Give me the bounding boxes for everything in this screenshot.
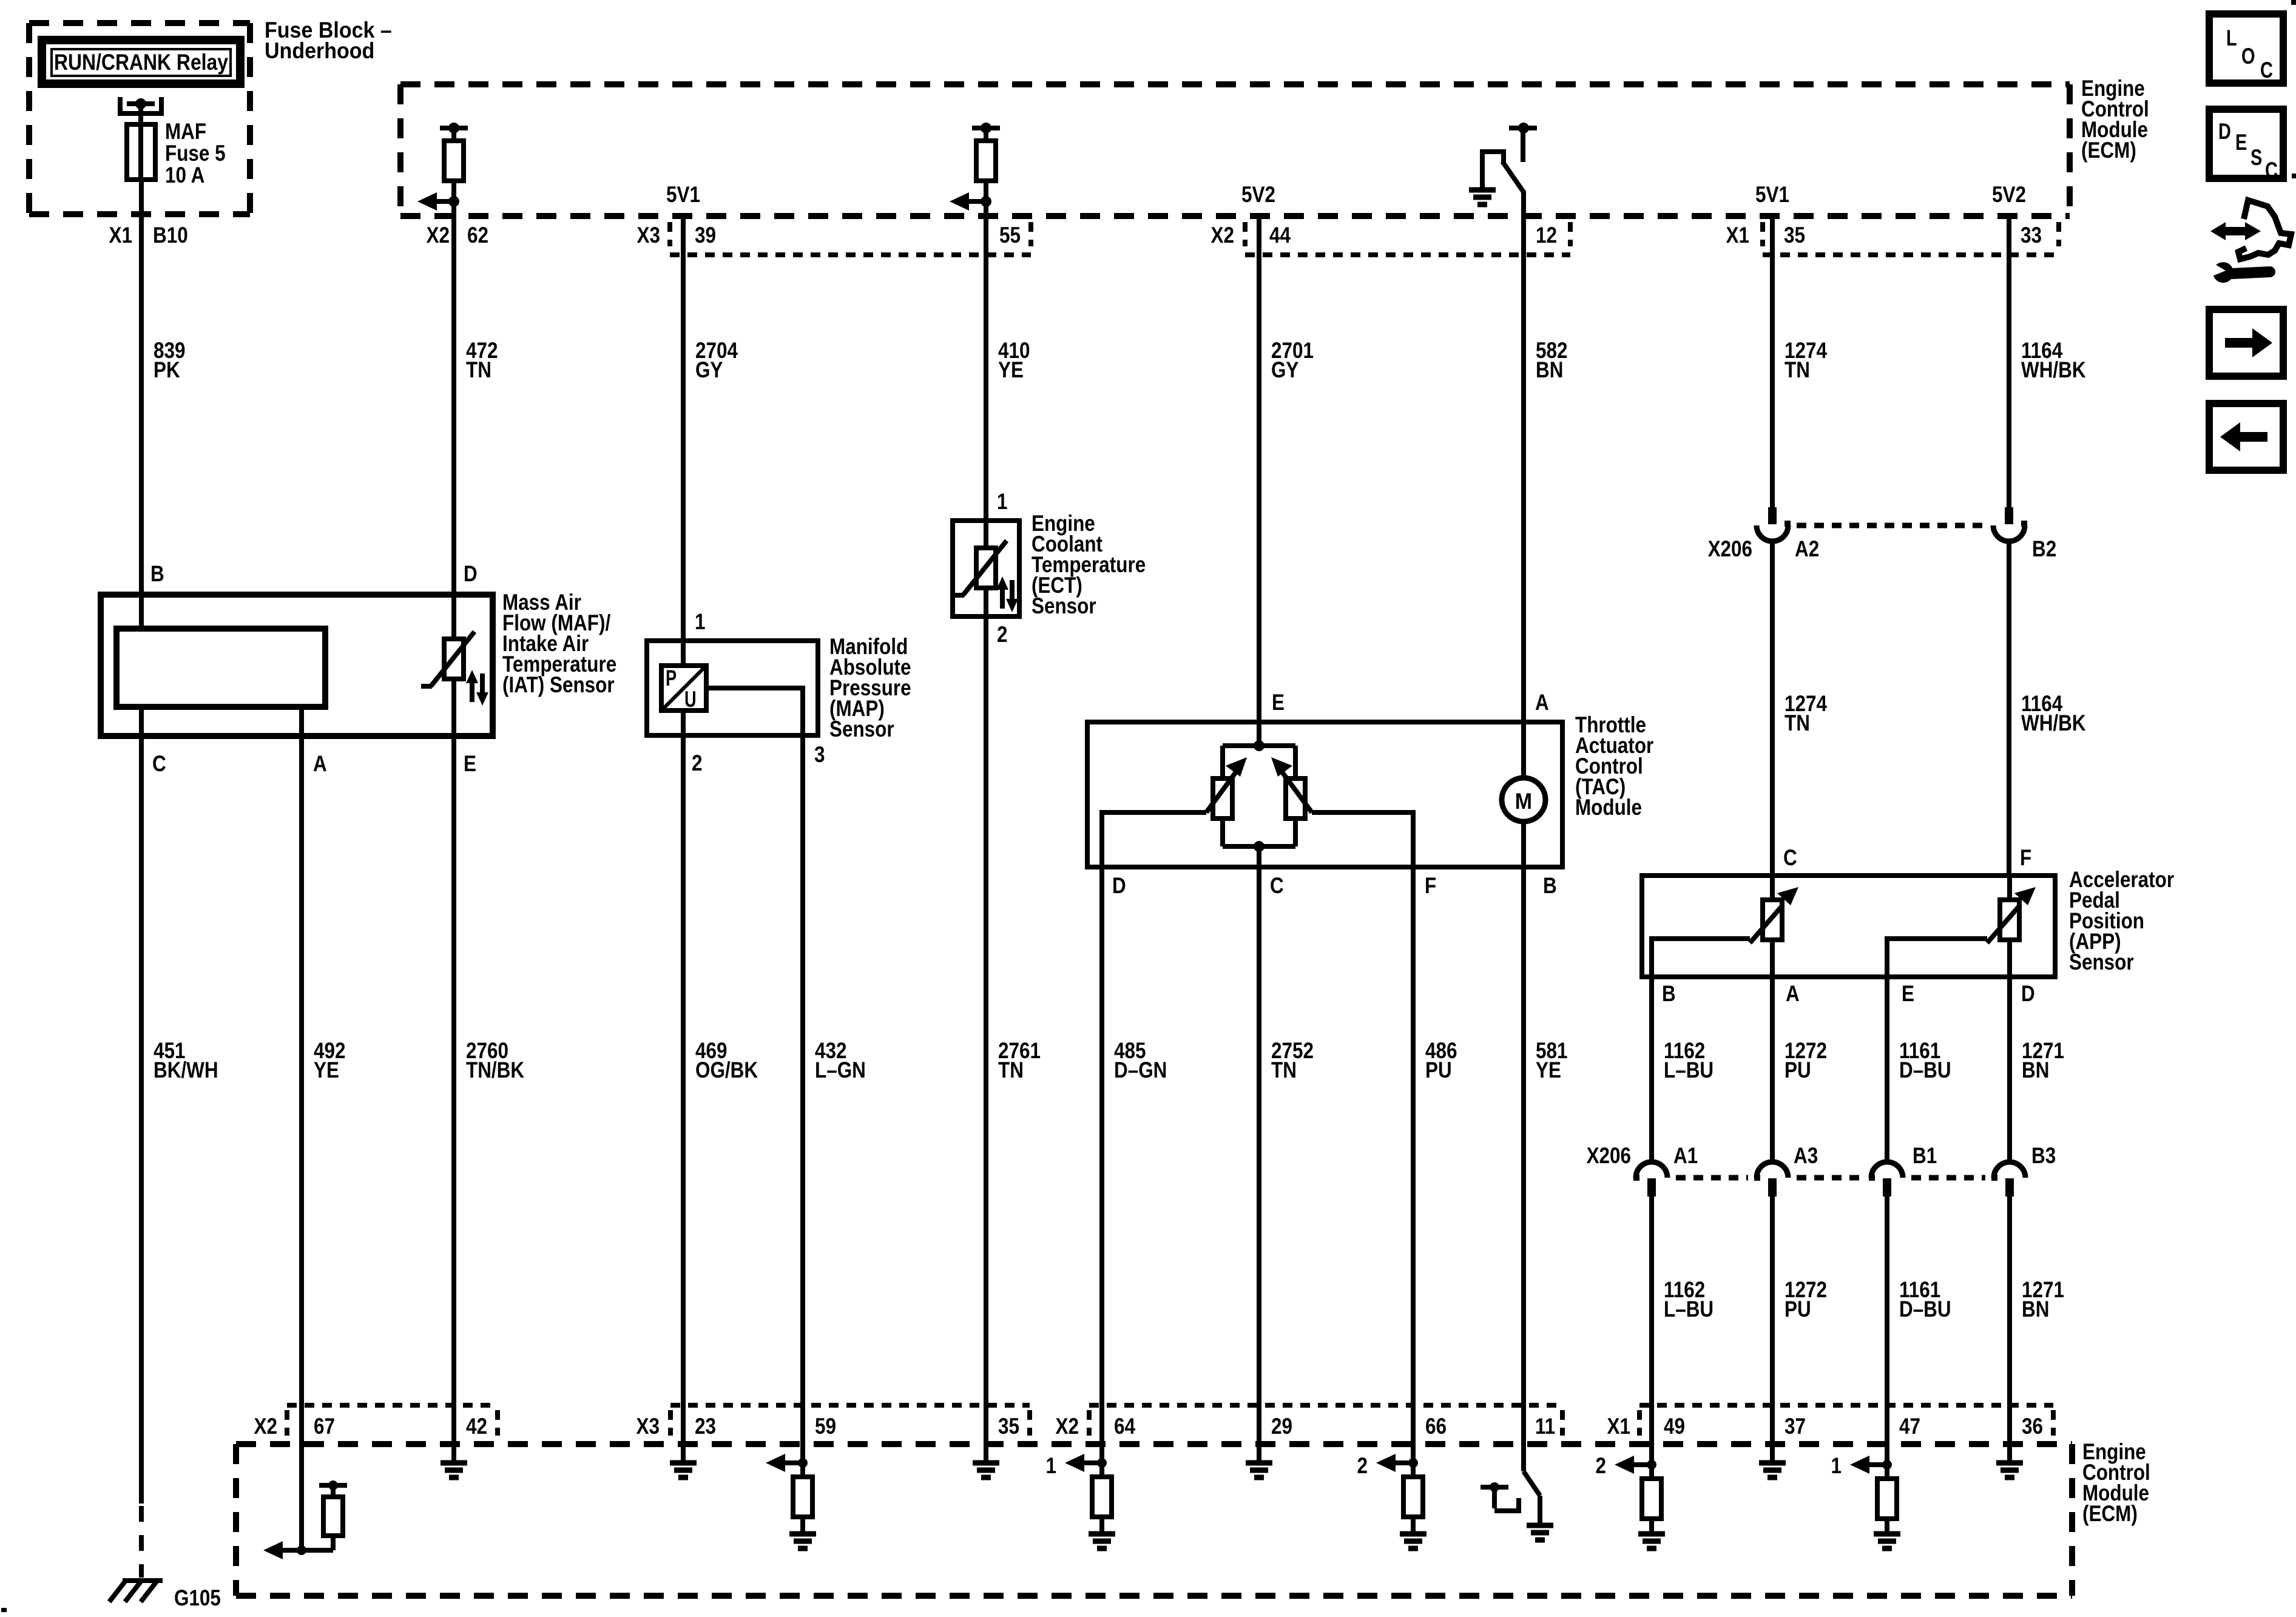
svg-text:TN: TN xyxy=(1784,357,1810,382)
svg-text:Underhood: Underhood xyxy=(265,38,374,63)
wire B inside MAF xyxy=(139,595,144,629)
svg-text:A: A xyxy=(1786,981,1800,1006)
connector X3 dotted outline (pins 23-35) xyxy=(670,1405,1030,1436)
ECM internal resistor to ground at pin 66 xyxy=(1400,1458,1427,1548)
wire 1164 WH/BK from ECM 33 to X206 B2 xyxy=(2007,216,2011,507)
svg-text:BK/WH: BK/WH xyxy=(154,1058,218,1082)
svg-text:C: C xyxy=(152,751,166,776)
wire 2704 GY from ECM 39 to MAP 1 xyxy=(681,216,686,641)
svg-text:D: D xyxy=(1112,873,1126,898)
svg-text:44: 44 xyxy=(1269,223,1291,248)
wire 1272 PU from X206 A3 to ECM 37 xyxy=(1770,1197,1775,1460)
svg-text:B10: B10 xyxy=(153,223,188,248)
page corner marks xyxy=(2291,0,2296,5)
svg-text:L–BU: L–BU xyxy=(1664,1297,1714,1322)
wire 451 dashed continuation xyxy=(139,1506,144,1578)
svg-text:B: B xyxy=(150,561,164,586)
svg-text:62: 62 xyxy=(467,223,488,248)
ECT thermistor xyxy=(953,521,1007,616)
svg-text:X206: X206 xyxy=(1708,536,1752,561)
svg-text:TN: TN xyxy=(1784,711,1810,735)
svg-text:L–BU: L–BU xyxy=(1664,1058,1714,1082)
svg-text:TN: TN xyxy=(998,1058,1024,1082)
back arrow icon xyxy=(2209,403,2283,470)
svg-text:35: 35 xyxy=(1784,223,1805,248)
svg-text:X3: X3 xyxy=(636,1414,660,1439)
ground G105 xyxy=(109,1580,163,1602)
wire 472 TN from ECM 62 to MAF D xyxy=(451,216,456,595)
TAC terminal labels D C F B xyxy=(1112,873,1557,898)
svg-text:47: 47 xyxy=(1899,1414,1920,1439)
TAC D branch xyxy=(1102,812,1206,867)
APP potentiometer 2 xyxy=(1987,876,2036,977)
wire label 581 YE xyxy=(1536,1038,1568,1082)
svg-text:B: B xyxy=(1543,873,1557,898)
svg-text:C: C xyxy=(1270,873,1284,898)
svg-text:D–BU: D–BU xyxy=(1899,1297,1951,1322)
svg-text:Fuse 5: Fuse 5 xyxy=(165,141,226,166)
MAF sensing element box xyxy=(116,629,325,707)
svg-text:WH/BK: WH/BK xyxy=(2021,711,2086,735)
svg-text:X1: X1 xyxy=(1607,1414,1631,1439)
svg-text:5V1: 5V1 xyxy=(1755,182,1789,207)
svg-text:2: 2 xyxy=(1596,1453,1607,1478)
ECM internal pull-up resistor at pin 62 xyxy=(440,123,468,216)
svg-text:39: 39 xyxy=(695,223,716,248)
svg-text:1: 1 xyxy=(997,489,1008,514)
APP terminal labels B A E D xyxy=(1662,981,2035,1006)
svg-text:59: 59 xyxy=(815,1414,836,1439)
svg-text:D: D xyxy=(2218,119,2231,144)
wire 2761 TN from ECT 2 to ECM 35 xyxy=(984,616,988,1460)
wire label 582 BN xyxy=(1536,338,1568,382)
wire 839 PK from fuse B10 to MAF B xyxy=(139,180,144,595)
wire label 1271 BN (lower) xyxy=(2022,1277,2064,1322)
forward arrow icon xyxy=(2209,309,2283,376)
ECM internal ground at pin 37 xyxy=(1759,1463,1786,1477)
svg-text:Sensor: Sensor xyxy=(829,717,894,741)
signal continuation arrow at pin 62 xyxy=(417,192,459,211)
connector X3 dotted outline (pins 39-55) xyxy=(670,222,1031,255)
svg-text:Module: Module xyxy=(1575,795,1642,820)
svg-text:TN/BK: TN/BK xyxy=(466,1058,524,1082)
wire label 472 TN xyxy=(466,338,498,382)
signal continuation arrow at pin 59 xyxy=(766,1454,785,1472)
signal continuation arrow 1 at pin 47 xyxy=(1831,1453,1888,1478)
X206 bottom harness dashed links xyxy=(1676,1175,1985,1181)
wire label 2701 GY xyxy=(1271,338,1314,382)
svg-text:33: 33 xyxy=(2021,223,2042,248)
wire 581 YE from TAC B to ECM 11 xyxy=(1521,867,1526,1471)
connector X2 dotted outline (pins 67-42) xyxy=(287,1405,498,1436)
MAP sensor name label xyxy=(829,634,911,741)
svg-text:YE: YE xyxy=(998,357,1024,382)
wire 485 D-GN from TAC D to ECM 64 xyxy=(1099,867,1104,1463)
svg-text:X206: X206 xyxy=(1587,1143,1631,1168)
wire 1164 WH/BK from X206 B2 to APP F xyxy=(2007,540,2011,876)
svg-text:C: C xyxy=(2260,58,2273,83)
ECT bidirectional arrows xyxy=(996,576,1018,612)
signal continuation arrow 2 at pin 66 xyxy=(1357,1453,1414,1478)
fuse block label xyxy=(265,18,392,63)
P/U pressure transducer symbol xyxy=(661,666,706,712)
wire 1 into P/U xyxy=(681,641,686,666)
wire label 486 PU xyxy=(1425,1038,1457,1082)
wire label 1162 L-BU xyxy=(1664,1038,1714,1082)
wire label 1162 L-BU (lower) xyxy=(1664,1277,1714,1322)
wire 2701 GY from ECM 44 to TAC E xyxy=(1257,216,1261,722)
svg-text:E: E xyxy=(1272,690,1285,715)
svg-text:2: 2 xyxy=(1357,1453,1368,1478)
svg-text:G105: G105 xyxy=(174,1585,221,1610)
svg-text:L–GN: L–GN xyxy=(815,1058,866,1082)
wire label 1274 TN xyxy=(1784,338,1827,382)
APP sensor box xyxy=(1642,876,2055,977)
svg-text:5V2: 5V2 xyxy=(1992,182,2026,207)
svg-text:YE: YE xyxy=(1536,1058,1561,1082)
wire 2 from P/U down xyxy=(681,711,686,735)
wire A inside MAF xyxy=(299,707,304,736)
svg-text:GY: GY xyxy=(695,357,723,382)
svg-text:67: 67 xyxy=(314,1414,335,1439)
svg-text:1: 1 xyxy=(1046,1453,1057,1478)
svg-text:X2: X2 xyxy=(427,223,450,248)
LOC icon xyxy=(2209,14,2283,83)
DESC icon xyxy=(2209,109,2283,183)
wire label 1164 WH/BK xyxy=(2021,338,2086,382)
svg-text:35: 35 xyxy=(998,1414,1019,1439)
connector X206 terminal B3 xyxy=(1991,1162,2025,1197)
ECM internal resistor to ground at pin 49 xyxy=(1638,1460,1665,1548)
svg-text:F: F xyxy=(2020,845,2031,870)
svg-text:TN: TN xyxy=(466,357,491,382)
svg-text:PU: PU xyxy=(1425,1058,1452,1082)
svg-text:WH/BK: WH/BK xyxy=(2021,357,2086,382)
RUN/CRANK Relay box xyxy=(42,40,240,84)
svg-text:PU: PU xyxy=(1784,1058,1811,1082)
connector X206 terminal B2 xyxy=(1993,507,2027,541)
wire 469 OG/BK from MAP 2 to ECM 23 xyxy=(681,735,686,1460)
signal continuation arrow at pin 55 xyxy=(950,192,991,211)
svg-text:F: F xyxy=(1425,873,1436,898)
svg-text:U: U xyxy=(684,687,697,712)
diagnostic icon arrow and wrench xyxy=(2208,200,2291,283)
connector X206 terminal A2 xyxy=(1757,507,1791,541)
svg-text:D: D xyxy=(464,561,478,586)
svg-text:A: A xyxy=(313,751,327,776)
svg-text:E: E xyxy=(464,751,476,776)
ECM internal ground at pin 42 xyxy=(441,1463,467,1477)
wire label 1274 TN (lower) xyxy=(1784,691,1827,735)
ECT sensor box xyxy=(953,521,1019,616)
wire from P/U to pin 3 xyxy=(706,688,803,735)
ECT sensor name label xyxy=(1032,511,1146,618)
connector X1 dotted outline (pins 49-36) xyxy=(1639,1405,2053,1436)
svg-text:BN: BN xyxy=(2022,1058,2049,1082)
TAC F branch xyxy=(1312,812,1413,867)
svg-text:RUN/CRANK Relay: RUN/CRANK Relay xyxy=(54,50,228,75)
svg-text:D–GN: D–GN xyxy=(1114,1058,1167,1082)
wire 486 PU from TAC F to ECM 66 xyxy=(1411,867,1416,1463)
wire D inside MAF xyxy=(451,595,456,639)
wire 432 L-GN from MAP 3 to ECM 59 xyxy=(800,735,805,1463)
wire 1161 D-BU from APP E to X206 B1 xyxy=(1885,977,1889,1163)
svg-text:23: 23 xyxy=(695,1414,716,1439)
wire 2760 TN/BK from MAF E to ECM 42 xyxy=(451,736,456,1460)
svg-text:C: C xyxy=(2265,158,2278,183)
right winding wiper arrow xyxy=(1271,757,1312,812)
APP pot 1 wiper feed from B xyxy=(1652,939,1750,977)
fuse F1 MAF Fuse 5 10A xyxy=(120,97,226,187)
svg-text:49: 49 xyxy=(1664,1414,1685,1439)
svg-text:YE: YE xyxy=(314,1058,339,1082)
svg-text:55: 55 xyxy=(999,223,1021,248)
engine control module ECM bottom dashed box xyxy=(236,1444,2072,1596)
wire 410 YE from ECM 55 to ECT 1 xyxy=(984,216,988,521)
svg-text:B3: B3 xyxy=(2031,1143,2056,1168)
svg-text:X1: X1 xyxy=(109,223,133,248)
MAF sensor name label xyxy=(502,590,616,697)
svg-text:Sensor: Sensor xyxy=(2069,950,2134,974)
svg-text:1: 1 xyxy=(695,609,706,634)
svg-text:1: 1 xyxy=(1831,1453,1842,1478)
wire label 469 OG/BK xyxy=(695,1038,758,1082)
wire label 1164 WH/BK (lower) xyxy=(2021,691,2086,735)
svg-text:36: 36 xyxy=(2022,1414,2043,1439)
svg-text:37: 37 xyxy=(1784,1414,1806,1439)
signal continuation arrow at pin 67 xyxy=(263,1541,306,1559)
left winding wiper arrow xyxy=(1206,757,1247,812)
wire label 485 D-GN xyxy=(1114,1038,1167,1082)
svg-text:11: 11 xyxy=(1535,1414,1555,1439)
ECM internal resistor to ground at pin 47 xyxy=(1874,1460,1900,1548)
wire 492 YE from MAF A to ECM 67 xyxy=(299,736,304,1550)
TAC module name label xyxy=(1575,712,1653,820)
svg-text:10 A: 10 A xyxy=(165,163,204,187)
svg-text:O: O xyxy=(2241,44,2255,69)
svg-text:D–BU: D–BU xyxy=(1899,1058,1951,1082)
wire label 1272 PU (lower) xyxy=(1784,1277,1827,1322)
connector X2 dotted outline (pins 64-11) xyxy=(1089,1405,1562,1436)
wire 1162 L-BU from X206 A1 to ECM 49 xyxy=(1649,1197,1654,1465)
svg-text:64: 64 xyxy=(1114,1414,1135,1439)
connector X206 terminal A1 xyxy=(1633,1162,1667,1197)
wire label 2760 TN/BK xyxy=(466,1038,524,1082)
motor M xyxy=(1502,722,1545,867)
ECM internal ground at pin 23 xyxy=(670,1463,697,1477)
MAP sensor box xyxy=(647,641,818,735)
wire label 1272 PU xyxy=(1784,1038,1827,1082)
svg-text:TN: TN xyxy=(1271,1058,1297,1082)
svg-text:PK: PK xyxy=(154,357,180,382)
wire label 432 L-GN xyxy=(815,1038,866,1082)
APP potentiometer 1 xyxy=(1750,876,1798,977)
ECM bottom label xyxy=(2082,1439,2150,1526)
wire 2752 TN from TAC C to ECM 29 xyxy=(1257,867,1261,1460)
svg-text:X2: X2 xyxy=(254,1414,278,1439)
wire label 839 PK xyxy=(154,338,186,382)
wire 1271 BN from APP D to X206 B3 xyxy=(2007,977,2012,1163)
svg-text:E: E xyxy=(2235,130,2247,155)
svg-text:5V1: 5V1 xyxy=(666,182,700,207)
svg-text:3: 3 xyxy=(814,742,825,767)
connector X206 terminal A3 xyxy=(1754,1162,1788,1197)
svg-text:(ECM): (ECM) xyxy=(2081,138,2136,163)
svg-text:X1: X1 xyxy=(1726,223,1750,248)
svg-text:42: 42 xyxy=(466,1414,487,1439)
engine control module ECM top dashed box xyxy=(400,84,2070,216)
ECM internal pull-up at pin 67 xyxy=(283,1480,347,1550)
svg-text:A: A xyxy=(1535,690,1549,715)
svg-text:Sensor: Sensor xyxy=(1032,593,1096,618)
ECM internal ground at pin 36 xyxy=(1996,1463,2023,1477)
svg-text:C: C xyxy=(1783,845,1797,870)
TAC module box xyxy=(1087,722,1562,867)
wire label 2761 TN xyxy=(998,1038,1041,1082)
ECM internal pull-up resistor at pin 55 xyxy=(972,123,1000,216)
svg-text:X2: X2 xyxy=(1056,1414,1079,1439)
connector X2 dotted outline (pins 44-12) xyxy=(1245,222,1570,255)
svg-text:BN: BN xyxy=(1536,357,1563,382)
svg-text:5V2: 5V2 xyxy=(1241,182,1275,207)
svg-text:A3: A3 xyxy=(1794,1143,1818,1168)
svg-text:D: D xyxy=(2021,981,2035,1006)
wire 1274 TN from X206 A2 to APP C xyxy=(1770,540,1775,876)
wire C inside MAF xyxy=(139,707,144,736)
X206 harness dashed link xyxy=(1797,523,1985,528)
svg-text:29: 29 xyxy=(1271,1414,1292,1439)
svg-text:(IAT) Sensor: (IAT) Sensor xyxy=(502,672,615,697)
svg-text:B1: B1 xyxy=(1913,1143,1937,1168)
svg-text:B2: B2 xyxy=(2032,536,2056,561)
wire 1162 L-BU from APP B to X206 A1 xyxy=(1649,977,1654,1163)
APP pot 2 wiper feed from E xyxy=(1887,939,1987,977)
svg-text:P: P xyxy=(666,666,677,690)
ECM internal ground switch at pin 12 xyxy=(1469,123,1537,216)
svg-text:B: B xyxy=(1662,981,1676,1006)
IAT bidirectional arrows xyxy=(466,670,488,706)
svg-text:OG/BK: OG/BK xyxy=(695,1058,758,1082)
IAT thermistor xyxy=(421,632,474,736)
wire 451 BK/WH from MAF C toward G105 xyxy=(139,736,144,1504)
ECM internal ground at pin 35 xyxy=(973,1463,999,1477)
fuse block underhood dashed box xyxy=(29,23,250,214)
svg-text:L: L xyxy=(2226,25,2237,50)
svg-text:X3: X3 xyxy=(637,223,661,248)
svg-text:GY: GY xyxy=(1271,357,1299,382)
wire label 1161 D-BU (lower) xyxy=(1899,1277,1951,1322)
svg-text:BN: BN xyxy=(2022,1297,2049,1322)
connector X206 terminal B1 xyxy=(1869,1162,1903,1197)
wire 1272 PU from APP A to X206 A3 xyxy=(1770,977,1775,1163)
wire 1274 TN from ECM 35 to X206 A2 xyxy=(1770,216,1775,507)
ECM internal ground at pin 29 xyxy=(1246,1463,1272,1477)
signal continuation arrow 2 at pin 49 xyxy=(1596,1453,1652,1478)
ECM internal resistor to ground at pin 59 xyxy=(789,1458,816,1548)
ECM internal resistor to ground at pin 64 xyxy=(1089,1458,1115,1548)
wire label 2752 TN xyxy=(1271,1038,1314,1082)
svg-text:E: E xyxy=(1902,981,1914,1006)
wire label 492 YE xyxy=(314,1038,346,1082)
TAC motor winding bridge xyxy=(1213,722,1305,867)
signal continuation arrow 1 at pin 64 xyxy=(1046,1453,1102,1478)
MAF/IAT sensor box xyxy=(101,595,493,736)
wire 1271 BN from X206 B3 to ECM 36 xyxy=(2007,1197,2012,1460)
wire label 410 YE xyxy=(998,338,1030,382)
wire label 1271 BN xyxy=(2022,1038,2064,1082)
svg-text:X2: X2 xyxy=(1211,223,1235,248)
svg-text:S: S xyxy=(2250,145,2262,170)
svg-text:MAF: MAF xyxy=(165,119,206,144)
svg-text:66: 66 xyxy=(1425,1414,1447,1439)
svg-text:2: 2 xyxy=(997,622,1008,647)
wire label 1161 D-BU xyxy=(1899,1038,1951,1082)
ECM internal ground switch at pin 11 xyxy=(1481,1471,1553,1540)
svg-text:A1: A1 xyxy=(1673,1143,1698,1168)
wire label 451 BK/WH xyxy=(154,1038,218,1082)
svg-text:(ECM): (ECM) xyxy=(2082,1501,2138,1526)
wire 1161 D-BU from X206 B1 to ECM 47 xyxy=(1885,1197,1889,1465)
ECM top label xyxy=(2081,76,2149,163)
svg-text:M: M xyxy=(1515,789,1532,814)
wire 582 BN from ECM 12 to TAC A xyxy=(1521,216,1526,722)
svg-text:2: 2 xyxy=(692,751,703,775)
svg-text:12: 12 xyxy=(1536,223,1557,248)
connector X1 dotted outline (pins 35-33) xyxy=(1763,222,2059,255)
APP sensor name label xyxy=(2069,867,2174,974)
svg-text:A2: A2 xyxy=(1795,536,1819,561)
wire label 2704 GY xyxy=(695,338,738,382)
svg-text:PU: PU xyxy=(1784,1297,1811,1322)
